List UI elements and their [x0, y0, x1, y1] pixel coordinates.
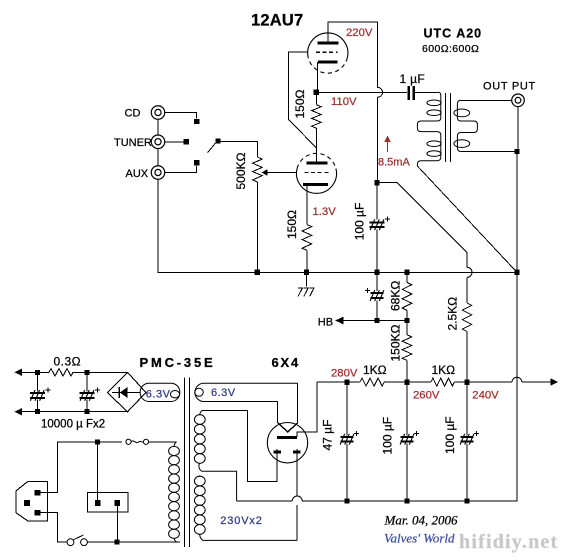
wire: fuse to primary top: [149, 441, 177, 443]
wire: 110V output line to coupling cap: [316, 91, 407, 93]
svg-text:47 µF: 47 µF: [321, 420, 335, 451]
wire: jack down to secondary bottom node: [517, 107, 519, 152]
line filter box: [87, 492, 128, 512]
node: decoupling cap ground: [374, 270, 379, 275]
V1a plate bar: [317, 42, 338, 45]
6X4 plate 2 (right T-bar): [293, 451, 301, 454]
svg-text:230Vx2: 230Vx2: [220, 515, 262, 527]
node: B+ 220V junction: [374, 180, 379, 185]
svg-text:100 µF: 100 µF: [443, 416, 457, 454]
capacitor 47uF: [346, 382, 348, 501]
svg-text:hifidiy.net: hifidiy.net: [459, 531, 558, 553]
node: 100uF ground (260V): [404, 498, 409, 503]
hop: ground rail over plate 2 lead: [292, 497, 302, 505]
wire: B+ node diagonal to 2.5K dropper with hop over ground bus: [377, 183, 467, 303]
V1a grid (dashed): [316, 51, 338, 53]
node: 280V / 47uF junction: [344, 379, 349, 384]
svg-text:OUT PUT: OUT PUT: [483, 81, 536, 93]
svg-text:220V: 220V: [346, 27, 373, 39]
plug pin earth: [24, 500, 30, 506]
wire: neutral to switch: [40, 513, 67, 542]
svg-text:1.3V: 1.3V: [313, 206, 337, 218]
capacitor 1uF coupling: [409, 86, 414, 100]
filter box pin 2: [115, 500, 121, 506]
6X4 plate 1 (left T-bar): [273, 451, 281, 454]
wire: 1uF to primary top: [415, 91, 438, 93]
node: CD selector contact: [194, 119, 199, 124]
node: cap1 - rail: [35, 409, 40, 414]
wire: 240V out with hop over ground riser, arrow: [467, 381, 551, 383]
T1 6.3V winding (rectifier heater, right side): [195, 383, 298, 401]
T1 primary winding (mains): [174, 442, 177, 447]
svg-text:6X4: 6X4: [272, 355, 301, 370]
wire: AUX hot to selector contact: [165, 166, 197, 173]
svg-text:1KΩ: 1KΩ: [363, 363, 387, 377]
plug pin live: [35, 490, 41, 496]
svg-text:0.3Ω: 0.3Ω: [54, 355, 82, 369]
plug pin neutral: [35, 510, 41, 516]
wire: secondary bottom lead: [461, 151, 517, 153]
V1b grid (dashed): [305, 171, 330, 173]
node: cathode resistor ground: [304, 270, 309, 275]
wire: V1a plate to 220V top rail, down right side with hop over 110V wire: [328, 22, 383, 183]
svg-text:AUX: AUX: [126, 168, 149, 180]
resistor 0.3 ohm: [49, 369, 73, 377]
wire: pot bottom to ground bus: [256, 182, 258, 272]
pot wiper arrow: [262, 172, 267, 174]
svg-text:100 µF: 100 µF: [381, 417, 395, 455]
node: 240V junction: [464, 379, 469, 384]
wire: V1b grid lead to pot wiper: [267, 172, 297, 174]
T1 230Vx2 center tap: [199, 463, 237, 501]
T2 secondary winding: [457, 100, 477, 151]
svg-text:110V: 110V: [331, 96, 357, 108]
node: filter box on neutral: [114, 540, 119, 545]
wire+arrow: heater DC - rail: [21, 411, 128, 413]
node: ground bus right end: [514, 270, 519, 275]
switch lever: [73, 535, 83, 540]
wire: switch to primary bottom: [87, 541, 180, 543]
svg-text:12AU7: 12AU7: [251, 11, 303, 29]
capacitor 10000uF #2: [86, 372, 88, 411]
svg-text:1KΩ: 1KΩ: [432, 363, 456, 377]
tube V1b lower triode envelope: [297, 153, 337, 193]
wire+arrow: heater DC + rail: [21, 371, 49, 373]
bridge diode symbol: [112, 392, 141, 394]
svg-text:UTC A20: UTC A20: [424, 27, 483, 41]
node: cap1 + rail: [35, 370, 40, 375]
resistor 1K ohm (first filter): [360, 378, 384, 386]
resistor 1K ohm (second filter): [431, 378, 454, 386]
wire: box pin1 up to live: [97, 442, 99, 500]
svg-text:2.5KΩ: 2.5KΩ: [446, 297, 460, 331]
svg-text:600Ω:600Ω: 600Ω:600Ω: [422, 43, 479, 55]
resistor 150K ohm: [406, 321, 408, 383]
resistor 150 ohm upper (V1a cathode): [312, 105, 322, 129]
HB wire and arrow: [343, 320, 407, 322]
wire: V1b cathode lead down: [306, 184, 308, 224]
node: AUX selector contact: [194, 160, 199, 165]
tube V1a upper triode envelope: [308, 33, 348, 73]
V1b plate bar: [307, 161, 328, 164]
capacitor 100uF (240V): [466, 382, 468, 501]
node: 260V junction: [404, 379, 409, 384]
wire: box pin2 down to neutral: [116, 506, 118, 542]
svg-text:10000 µ Fx2: 10000 µ Fx2: [41, 419, 105, 431]
svg-text:150Ω: 150Ω: [285, 210, 299, 239]
node: 68K top on bus: [404, 270, 409, 275]
input jack TUNER: [151, 135, 165, 149]
ground symbol: [306, 272, 308, 286]
svg-text:TUNER: TUNER: [114, 137, 152, 149]
svg-text:150Ω: 150Ω: [293, 89, 307, 118]
svg-text:280V: 280V: [331, 368, 358, 380]
rectifier tube 6X4 envelope: [267, 423, 307, 463]
bridge rectifier diamond: [107, 372, 146, 412]
node: secondary bottom / ground riser: [514, 149, 519, 154]
wire: T2 primary bottom diagonal to ground node: [417, 166, 517, 272]
input jack CD: [151, 106, 165, 120]
input jack AUX: [151, 166, 165, 180]
wire: right ground riser down to bottom rail: [237, 152, 517, 502]
node: cap2 - rail: [85, 409, 90, 414]
selector switch common terminal: [215, 138, 220, 143]
V1b cathode bar: [303, 183, 328, 186]
mains plug: [16, 482, 47, 521]
wire: main ground bus: [158, 271, 517, 273]
resistor 68K ohm: [406, 272, 408, 320]
svg-text:240V: 240V: [472, 390, 499, 402]
wire: 230V top to plate 1: [248, 411, 278, 482]
capacitor 10000uF #1: [36, 372, 38, 411]
T1 230Vx2 winding lower section: [199, 476, 201, 478]
6X4 cathode bar: [277, 436, 297, 439]
svg-text:Mar. 04, 2006: Mar. 04, 2006: [384, 513, 458, 528]
6X4 heater/filament V: [278, 423, 298, 432]
capacitor 100uF B+ decoupling: [376, 183, 378, 273]
node: filter box tap on live: [95, 439, 100, 444]
wire: 6X4 cathode step to 280V riser: [297, 382, 317, 437]
svg-text:6.3V: 6.3V: [211, 387, 236, 399]
svg-text:PMC-35E: PMC-35E: [140, 355, 216, 370]
node: 100uF ground (240V): [464, 498, 469, 503]
node: HB cap junction: [374, 318, 379, 323]
wire: CD hot to selector contact: [165, 113, 197, 119]
mains switch: [67, 539, 74, 546]
T1 230Vx2 winding upper section: [200, 411, 248, 416]
fuse: [126, 439, 131, 444]
T2 primary winding: [417, 92, 440, 166]
wire: 6.3V top lead to heater pin 2: [297, 383, 299, 423]
svg-text:HB: HB: [318, 316, 333, 328]
resistor 2.5K ohm B+ dropper: [462, 303, 472, 332]
transformer T2 core: [446, 93, 451, 162]
node: HB divider junction: [404, 318, 409, 323]
node: cap2 + rail: [85, 370, 90, 375]
resistor 150 ohm lower (V1b cathode): [302, 225, 312, 251]
wire: live to fuse line: [40, 442, 122, 493]
wire: TUNER hot to selector contact: [165, 141, 184, 143]
potentiometer 500K ohm: [253, 157, 263, 182]
wire: switch common to volume pot top: [221, 141, 258, 157]
wire: V1a grid lead going left and down to lower plate (SRPP): [288, 52, 316, 148]
node: pot ground: [255, 270, 260, 275]
wire: jack sleeve chain down to ground bus: [157, 119, 159, 272]
red arrow 8.5mA current direction: [387, 140, 389, 152]
svg-text:Valves' World: Valves' World: [384, 531, 455, 546]
svg-text:8.5mA: 8.5mA: [378, 157, 410, 169]
svg-text:150KΩ: 150KΩ: [389, 324, 403, 361]
svg-text:260V: 260V: [413, 390, 440, 402]
node: 47uF ground: [344, 498, 349, 503]
wire: V1a cathode lead down to 110V node: [316, 62, 318, 92]
capacitor 100uF (260V): [406, 382, 408, 501]
node: TUNER selector contact: [184, 139, 189, 144]
V1a cathode bar: [318, 61, 338, 64]
wire: 230V bottom to plate 2 (crosses ground rail hop): [296, 453, 298, 541]
transformer T1 core: [185, 378, 190, 548]
wire: 6.3V bottom lead to heater pin 1: [277, 402, 279, 424]
selector switch lever: [208, 143, 216, 153]
svg-text:1 µF: 1 µF: [400, 72, 425, 86]
node: 110V junction: [314, 90, 319, 95]
svg-text:6.3V: 6.3V: [146, 389, 171, 401]
svg-text:100 µF: 100 µF: [353, 203, 367, 241]
filter box pin 1: [95, 500, 101, 506]
svg-text:500KΩ: 500KΩ: [234, 152, 248, 189]
svg-text:68KΩ: 68KΩ: [389, 281, 403, 311]
wire: V1b plate lead up: [315, 148, 317, 163]
capacitor (HB filter) bus to HB: [376, 272, 378, 320]
wire: secondary top to OUT PUT jack: [461, 99, 512, 101]
OUT PUT jack: [512, 94, 525, 107]
wire: 280V rail from 6X4 cathode: [317, 381, 360, 383]
T1 6.3V heater winding (left side, DC heater supply): [140, 383, 180, 401]
svg-text:CD: CD: [125, 108, 141, 120]
